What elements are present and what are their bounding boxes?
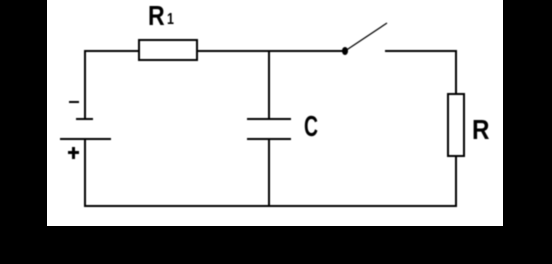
battery positive plate (long) — [60, 138, 112, 140]
label R1 subscript 1 — [167, 12, 174, 28]
wire capacitor lower lead — [268, 139, 270, 206]
battery minus sign — [69, 101, 79, 103]
label C — [304, 113, 318, 142]
wire left vertical upper (top node to battery -) — [84, 50, 86, 119]
wire top (battery to R1 to switch) — [84, 50, 346, 52]
battery plus sign vertical — [72, 147, 75, 159]
wire left vertical lower (battery + to bottom node) — [84, 139, 86, 206]
label R1 letter R — [148, 2, 165, 30]
label R — [472, 116, 489, 144]
switch arm (open blade) — [343, 21, 389, 53]
battery plus sign horizontal — [68, 151, 79, 154]
capacitor C bottom plate — [247, 138, 291, 140]
switch contact dot — [342, 47, 349, 56]
wire capacitor upper lead — [268, 50, 270, 119]
battery negative plate (short) — [76, 118, 93, 120]
white schematic sheet — [47, 0, 503, 226]
capacitor C top plate — [247, 118, 291, 120]
resistor R1 body — [138, 39, 198, 62]
resistor R body — [447, 93, 465, 158]
wire right vertical — [455, 50, 457, 206]
wire top-right (switch to R) — [385, 50, 456, 52]
wire bottom (return path) — [84, 205, 457, 207]
